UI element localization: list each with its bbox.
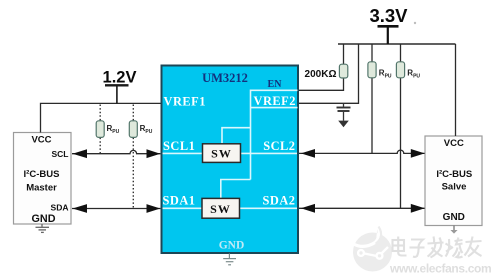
svg-text:3.3V: 3.3V [369,5,408,26]
switch SW2 [202,198,240,218]
resistor 200K [339,64,347,78]
svg-text:UM3212: UM3212 [202,71,248,85]
svg-text:VCC: VCC [31,135,51,146]
svg-text:SDA1: SDA1 [163,193,196,207]
3.3V rail [338,43,456,45]
slave ground symbol [450,226,457,234]
svg-text:SDA: SDA [51,203,69,213]
svg-text:SW: SW [211,147,232,161]
pullup dashed drop to SCL1 [99,105,101,154]
svg-text:I²C-BUS: I²C-BUS [436,169,472,180]
3.3V supply stem [387,27,389,44]
svg-text:GND: GND [219,240,245,252]
wire SCL2 with hop [299,150,425,153]
capacitor ground arrow [338,121,349,128]
wire Rpu right 2 drop [400,44,402,208]
svg-text:www.elecfans.com: www.elecfans.com [389,262,491,276]
1.2V supply stem [116,86,118,103]
svg-text:RPU: RPU [107,124,120,135]
svg-text:1.2V: 1.2V [103,68,137,86]
svg-text:GND: GND [32,213,56,225]
watermark chinese 友 [465,237,482,257]
svg-text:I²C-BUS: I²C-BUS [24,169,60,180]
wire Rpu right 1 drop [371,44,373,153]
resistor Rpu left 1 [96,121,104,138]
svg-text:200KΩ: 200KΩ [305,69,337,80]
svg-text:SW: SW [210,202,231,216]
svg-text:SDA2: SDA2 [263,193,296,207]
arrow SDA1 right [147,204,161,213]
svg-text:EN: EN [268,79,283,90]
inner SDA light line [163,207,298,209]
I2C-BUS Master box [14,133,72,225]
3.3V supply bar [378,25,399,28]
wire SDA2 [299,207,425,209]
arrow SCL2 right [411,149,425,158]
svg-text:VREF1: VREF1 [164,94,206,108]
arrow SDA2 left [301,204,315,213]
inner EN net and VREF2 frame [221,90,298,198]
wire SDA1 [72,208,160,210]
svg-text:RPU: RPU [140,124,153,135]
block ground symbol [223,254,236,265]
svg-text:SCL2: SCL2 [263,139,295,153]
arrow SCL1 right [147,149,161,158]
watermark logo disc [353,226,392,272]
wire 200K to rail [343,44,345,64]
watermark chinese 电 [393,237,407,256]
switch SW1 [203,144,241,163]
master ground symbol [36,224,50,232]
wire rail to slave VCC [455,44,457,136]
arrow SDA1 left [73,204,88,213]
inner SCL light line [163,152,298,154]
wire EN to 200K [299,78,344,91]
svg-text:SCL: SCL [52,149,69,159]
wire VREF2 to rail [299,44,359,103]
svg-text:GND: GND [443,212,465,223]
watermark chinese 烧 [446,238,463,258]
watermark chinese 子 [410,240,425,257]
resistor Rpu right 2 [396,62,404,78]
svg-text:Salve: Salve [442,182,467,193]
arrow SDA2 right [411,204,425,213]
1.2V supply bar [105,84,129,86]
svg-text:VCC: VCC [444,138,464,149]
resistor Rpu right 1 [368,62,376,78]
svg-text:SCL1: SCL1 [163,139,195,153]
speck artifact [414,22,416,24]
watermark chinese 发 [428,237,444,258]
arrow SCL1 left [73,149,88,158]
UM3212 block [162,66,299,254]
wire SCL1 [72,150,160,153]
I2C-BUS Slave box [425,136,482,226]
arrow SCL2 left [301,149,315,158]
svg-text:RPU: RPU [379,68,392,79]
svg-text:VREF2: VREF2 [254,94,296,108]
svg-text:Master: Master [26,183,57,194]
pullup dashed drop to SDA1 [132,105,134,209]
wire VREF1 from master VCC [41,103,162,132]
resistor Rpu left 2 [129,121,137,138]
capacitor on VREF2 [337,103,351,120]
svg-text:RPU: RPU [407,68,420,79]
